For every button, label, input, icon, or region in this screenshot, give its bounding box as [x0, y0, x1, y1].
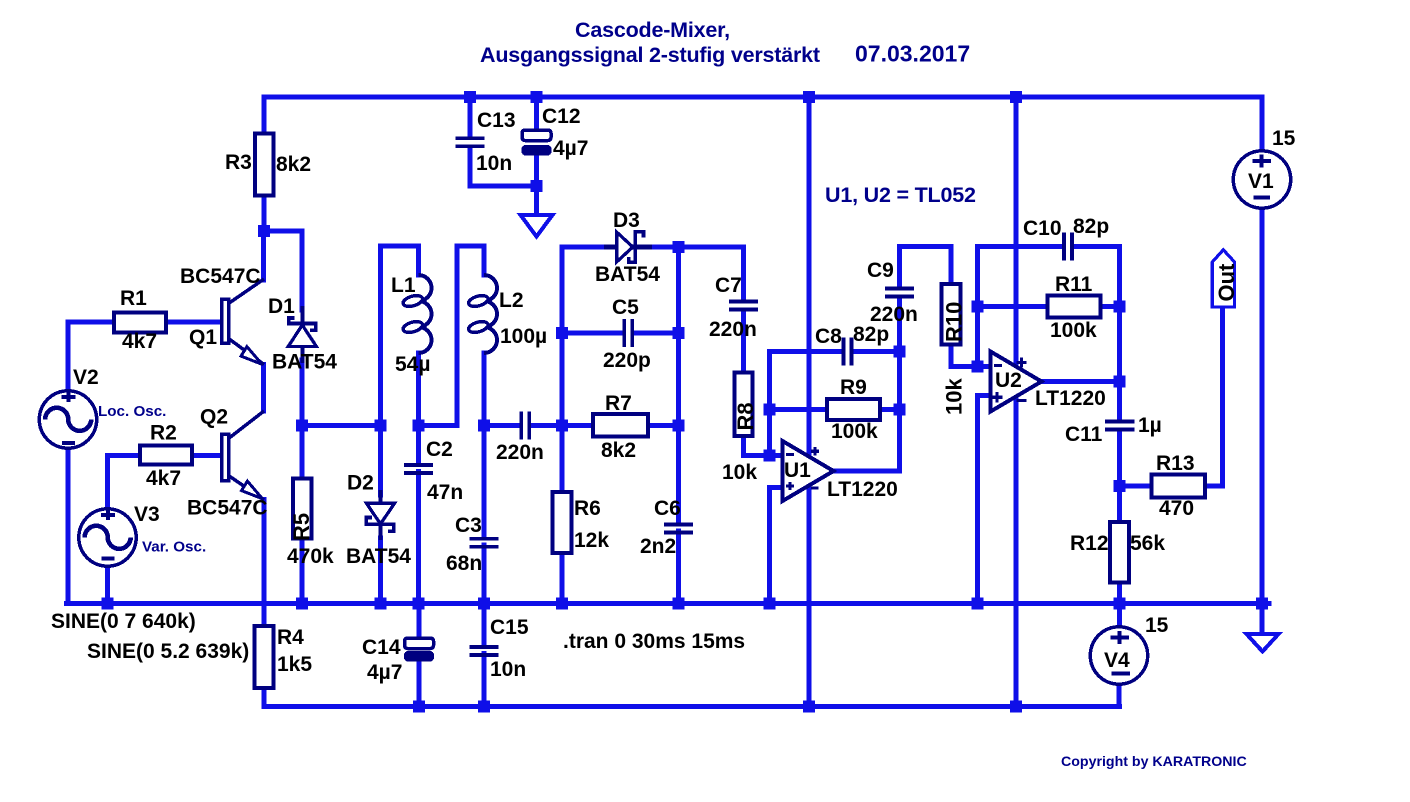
svg-text:470: 470 [1159, 497, 1194, 520]
svg-text:U2: U2 [995, 369, 1022, 392]
svg-text:.tran 0 30ms 15ms: .tran 0 30ms 15ms [563, 630, 745, 653]
svg-text:R11: R11 [1055, 273, 1093, 296]
svg-text:C7: C7 [715, 274, 742, 297]
svg-text:Out: Out [1214, 263, 1239, 302]
svg-text:47n: 47n [427, 481, 463, 504]
svg-text:8k2: 8k2 [601, 439, 636, 462]
svg-text:R3: R3 [225, 151, 252, 174]
svg-text:Q1: Q1 [189, 326, 217, 349]
svg-text:Var. Osc.: Var. Osc. [142, 539, 206, 556]
svg-text:R1: R1 [120, 287, 147, 310]
svg-text:BAT54: BAT54 [272, 351, 337, 374]
svg-text:4µ7: 4µ7 [367, 661, 402, 684]
svg-text:4k7: 4k7 [122, 330, 157, 353]
svg-text:R10: R10 [942, 302, 967, 342]
svg-text:C12: C12 [542, 105, 581, 128]
svg-text:BAT54: BAT54 [346, 545, 411, 568]
svg-text:82p: 82p [853, 323, 889, 346]
svg-text:4µ7: 4µ7 [553, 137, 588, 160]
svg-text:C13: C13 [477, 109, 516, 132]
svg-text:8k2: 8k2 [276, 153, 311, 176]
svg-text:R4: R4 [277, 626, 304, 649]
svg-text:U1: U1 [784, 459, 811, 482]
svg-text:07.03.2017: 07.03.2017 [855, 41, 970, 67]
svg-text:100k: 100k [831, 420, 878, 443]
svg-text:SINE(0 7 640k): SINE(0 7 640k) [51, 610, 196, 633]
svg-text:SINE(0 5.2 639k): SINE(0 5.2 639k) [87, 640, 249, 663]
svg-text:C9: C9 [867, 259, 894, 282]
svg-text:LT1220: LT1220 [1035, 387, 1106, 410]
svg-text:100µ: 100µ [500, 325, 547, 348]
svg-text:Cascode-Mixer,: Cascode-Mixer, [575, 18, 730, 42]
svg-text:100k: 100k [1050, 319, 1097, 342]
svg-text:12k: 12k [574, 529, 609, 552]
svg-text:1k5: 1k5 [277, 653, 312, 676]
svg-text:220p: 220p [603, 349, 651, 372]
svg-text:C8: C8 [815, 325, 842, 348]
svg-text:BC547C: BC547C [180, 265, 261, 288]
svg-text:C14: C14 [362, 636, 401, 659]
svg-text:Loc. Osc.: Loc. Osc. [98, 403, 166, 420]
svg-text:V4: V4 [1104, 649, 1130, 672]
svg-text:10n: 10n [476, 152, 512, 175]
svg-text:Q2: Q2 [200, 406, 228, 429]
svg-text:54µ: 54µ [395, 353, 430, 376]
svg-text:R8: R8 [733, 402, 758, 430]
svg-text:4k7: 4k7 [146, 467, 181, 490]
svg-text:C10: C10 [1023, 217, 1062, 240]
svg-text:10n: 10n [490, 658, 526, 681]
svg-text:C5: C5 [612, 296, 639, 319]
svg-text:R7: R7 [605, 392, 632, 415]
svg-text:Copyright by KARATRONIC: Copyright by KARATRONIC [1061, 754, 1247, 770]
svg-text:15: 15 [1145, 614, 1169, 637]
svg-text:C3: C3 [455, 514, 482, 537]
svg-text:82p: 82p [1073, 215, 1109, 238]
svg-text:56k: 56k [1130, 532, 1165, 555]
svg-text:V2: V2 [73, 366, 99, 389]
svg-text:V1: V1 [1248, 170, 1274, 193]
svg-text:V3: V3 [134, 503, 160, 526]
svg-text:15: 15 [1272, 127, 1296, 150]
svg-text:R2: R2 [150, 422, 177, 445]
svg-text:BC547C: BC547C [187, 497, 268, 520]
svg-text:C2: C2 [426, 438, 453, 461]
svg-text:R12: R12 [1070, 532, 1109, 555]
svg-text:R6: R6 [574, 497, 601, 520]
svg-text:BAT54: BAT54 [595, 263, 660, 286]
svg-text:10k: 10k [722, 461, 757, 484]
svg-text:220n: 220n [496, 441, 544, 464]
svg-text:D3: D3 [613, 209, 640, 232]
svg-text:LT1220: LT1220 [827, 478, 898, 501]
svg-text:L1: L1 [391, 274, 416, 297]
svg-text:68n: 68n [446, 552, 482, 575]
svg-text:R13: R13 [1156, 452, 1195, 475]
svg-text:2n2: 2n2 [640, 535, 676, 558]
svg-text:D1: D1 [268, 295, 295, 318]
svg-text:L2: L2 [499, 289, 524, 312]
svg-text:C15: C15 [490, 616, 529, 639]
svg-text:R9: R9 [840, 376, 867, 399]
svg-text:220n: 220n [709, 318, 757, 341]
svg-text:C11: C11 [1065, 423, 1103, 446]
svg-text:C6: C6 [654, 497, 681, 520]
svg-text:U1, U2 = TL052: U1, U2 = TL052 [825, 183, 976, 207]
svg-text:1µ: 1µ [1138, 414, 1162, 437]
svg-text:Ausgangssignal 2-stufig verstä: Ausgangssignal 2-stufig verstärkt [480, 43, 820, 67]
svg-text:220n: 220n [870, 303, 918, 326]
svg-text:R5: R5 [289, 513, 314, 541]
svg-text:10k: 10k [942, 378, 967, 415]
svg-text:D2: D2 [347, 472, 374, 495]
svg-text:470k: 470k [287, 545, 334, 568]
